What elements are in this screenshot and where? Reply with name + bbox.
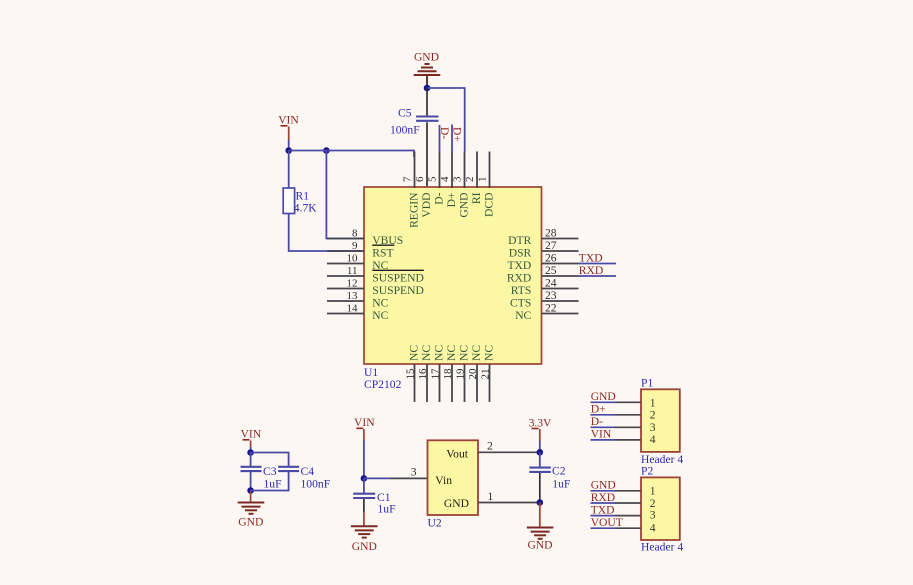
label C3 [263, 465, 277, 478]
pin number 1 [488, 490, 494, 503]
wire VIN down to node [363, 440, 365, 478]
op IC U1 CP2102 body [364, 187, 542, 364]
pin name CTS [510, 296, 531, 309]
svg-text:6: 6 [414, 176, 426, 182]
P1 pin 3 net wire D- [591, 426, 616, 428]
node junction C3/C4 top [247, 449, 254, 456]
pin name NC (bottom) [445, 345, 458, 361]
pin 27 stub (right) [542, 250, 579, 252]
pin name NC [372, 309, 388, 322]
pin number 3 [411, 465, 417, 478]
svg-text:SUSPEND: SUSPEND [372, 271, 424, 284]
svg-text:NC: NC [445, 345, 458, 361]
P2 pin number 4 [650, 521, 656, 534]
svg-text:2: 2 [650, 408, 656, 421]
power port VIN (lower left) [240, 428, 261, 448]
wire C2 to bottom node [539, 473, 541, 503]
wire net TXD from pin26 [579, 263, 617, 265]
P2 pin number 3 [650, 509, 656, 522]
pin number 26 [545, 251, 557, 264]
svg-text:Vout: Vout [446, 447, 468, 460]
pin name NC (bottom) [470, 345, 483, 361]
pin 3 stub of U2 [390, 477, 428, 479]
pin number 23 [545, 289, 557, 302]
value 1uF [552, 477, 571, 490]
label C1 [377, 491, 391, 504]
P1 pin 4 stub [615, 439, 641, 441]
pin number 3 [452, 176, 464, 182]
connector P2 body [641, 477, 680, 540]
net label RXD [579, 264, 603, 277]
svg-text:VIN: VIN [278, 114, 299, 127]
wire C3 to bottom node [250, 472, 252, 491]
pin name RXD [507, 271, 531, 284]
value 1uF [264, 477, 283, 490]
svg-text:GND: GND [458, 193, 471, 218]
ground symbol (top, flipped earth) [414, 64, 441, 75]
pin number 8 [352, 227, 358, 239]
label C5 [398, 107, 412, 120]
pin name NC (bottom) [433, 345, 446, 361]
power port GND (top, net label) [414, 51, 439, 64]
svg-text:13: 13 [347, 290, 359, 302]
resistor R1 [283, 188, 294, 214]
pin name NC (bottom) [483, 345, 496, 361]
pin 17 stub (bottom) [439, 364, 441, 402]
value 100nF [301, 477, 331, 490]
net label D- [591, 415, 603, 428]
capacitor C2 [529, 468, 550, 472]
pin name VDD [420, 193, 433, 218]
pin number 24 [545, 276, 557, 289]
pin number 4 [439, 176, 451, 182]
svg-text:NC: NC [515, 309, 531, 322]
wire junction to pin8 VBUS [326, 151, 364, 239]
svg-text:NC: NC [483, 345, 496, 361]
wire net D- to pin5 [439, 125, 441, 152]
comment Header 4 (P1) [641, 453, 683, 466]
connector P2 designator [641, 465, 653, 478]
svg-text:4: 4 [650, 433, 656, 446]
P2 pin 1 stub [615, 490, 641, 492]
svg-text:D+: D+ [445, 193, 458, 208]
pin name TXD [507, 259, 531, 272]
pin name NC (bottom) [420, 345, 433, 361]
capacitor C3 [241, 467, 262, 471]
pin 12 stub (left) [327, 288, 364, 290]
wire C4 to bottom node [251, 472, 289, 491]
node junction VIN/VBUS branch [323, 147, 330, 154]
svg-text:C3: C3 [263, 465, 277, 478]
svg-text:14: 14 [347, 302, 359, 314]
svg-text:4.7K: 4.7K [294, 202, 317, 215]
wire 3.3V to node [539, 441, 541, 453]
P1 pin 4 net wire VIN [591, 439, 616, 441]
wire GND stem to junction [426, 76, 428, 89]
svg-text:1uF: 1uF [552, 477, 571, 490]
pin name SUSPEND [372, 271, 424, 284]
svg-text:SUSPEND: SUSPEND [372, 284, 424, 297]
svg-text:D-: D- [433, 192, 446, 204]
svg-text:RTS: RTS [511, 284, 532, 297]
svg-text:17: 17 [429, 368, 441, 380]
svg-text:VIN: VIN [591, 428, 612, 441]
net label GND [591, 390, 616, 403]
svg-text:NC: NC [458, 345, 471, 361]
pin name RI [470, 192, 483, 204]
svg-text:D+: D+ [591, 403, 606, 416]
P2 pin 1 net wire GND [591, 490, 616, 492]
node junction VIN/R1 [285, 147, 292, 154]
pin number 20 [467, 368, 479, 380]
pin 21 stub (bottom) [489, 364, 491, 402]
svg-text:Vin: Vin [435, 474, 452, 487]
pin number 1 [477, 177, 489, 183]
pin 2 stub of U2 (Vout) [478, 451, 540, 453]
svg-text:7: 7 [402, 176, 414, 182]
svg-text:GND: GND [591, 390, 616, 403]
pin name GND [458, 193, 471, 218]
pin 24 stub (right) [542, 288, 579, 290]
svg-text:NC: NC [372, 309, 388, 322]
P2 pin number 1 [650, 485, 656, 498]
pin number 27 [545, 239, 557, 252]
pin number 2 [487, 440, 493, 453]
svg-text:TXD: TXD [591, 503, 615, 516]
wire net D+ to pin4 [451, 125, 453, 153]
svg-text:1: 1 [488, 490, 494, 503]
pin 4 stub (top) [451, 152, 453, 189]
svg-text:DTR: DTR [508, 234, 531, 247]
pin 11 stub (left) [327, 275, 364, 277]
svg-text:28: 28 [545, 226, 557, 239]
P2 pin 2 stub [615, 502, 641, 504]
P1 pin 1 stub [615, 401, 641, 403]
svg-text:3: 3 [452, 176, 464, 182]
part number CP2102 [364, 378, 402, 391]
wire node to C1 [363, 478, 365, 494]
svg-text:5: 5 [427, 176, 439, 182]
pin name NC [372, 296, 388, 309]
pin number 19 [454, 368, 466, 380]
svg-text:CP2102: CP2102 [364, 378, 402, 391]
svg-text:NC: NC [408, 345, 421, 361]
pin number 18 [442, 368, 454, 380]
pin 9 stub (left) [327, 250, 364, 252]
P2 pin 3 net wire TXD [591, 515, 616, 517]
wire net RXD from pin25 [579, 275, 617, 277]
pin name SUSPEND [372, 284, 424, 297]
svg-text:2: 2 [487, 440, 493, 453]
svg-text:19: 19 [454, 368, 466, 380]
wire VIN stem to junction [288, 140, 290, 151]
P2 pin 4 net wire VOUT [591, 527, 616, 529]
svg-text:21: 21 [479, 369, 491, 380]
pin name DTR [508, 234, 531, 247]
svg-text:8: 8 [352, 227, 358, 239]
pin 10 stub (left) [327, 263, 364, 265]
svg-text:18: 18 [442, 368, 454, 380]
pin number 14 [347, 302, 359, 314]
pin name RST [372, 246, 393, 259]
node junction 3.3V/Vout/C2 [537, 449, 544, 456]
svg-text:1: 1 [650, 485, 656, 498]
svg-text:16: 16 [417, 368, 429, 380]
wire node to C3 [250, 453, 252, 468]
svg-text:VIN: VIN [240, 428, 261, 441]
pin 8 stub (left) [327, 238, 364, 240]
net label D+ (rotated) [451, 127, 464, 142]
net label TXD [591, 503, 615, 516]
svg-text:1: 1 [477, 177, 489, 183]
svg-text:GND: GND [238, 516, 263, 529]
label C4 [301, 465, 315, 478]
svg-text:GND: GND [527, 539, 552, 552]
svg-text:GND: GND [444, 497, 469, 510]
pin number 6 [414, 176, 426, 182]
pin number 16 [417, 368, 429, 380]
svg-text:20: 20 [467, 368, 479, 380]
P1 pin number 2 [650, 408, 656, 421]
pin 3 stub (top) [464, 152, 466, 189]
wire node to ground [539, 503, 541, 528]
pin 16 stub (bottom) [426, 364, 428, 402]
wire VIN to C3 node [250, 447, 252, 453]
svg-text:100nF: 100nF [390, 124, 420, 137]
pin number 7 [402, 176, 414, 182]
P2 pin number 2 [650, 497, 656, 510]
net label VIN [591, 428, 612, 441]
node junction VIN/C1/U2 [361, 475, 368, 482]
svg-text:3: 3 [650, 509, 656, 522]
value 100nF [390, 124, 420, 137]
P1 pin number 3 [650, 421, 656, 434]
svg-text:REGIN: REGIN [408, 192, 421, 228]
svg-text:RI: RI [470, 192, 483, 204]
net label D+ [591, 403, 606, 416]
regulator U2 body [428, 440, 479, 515]
pin name VBUS [372, 234, 403, 247]
pin 20 stub (bottom) [476, 364, 478, 402]
wire branch to C4 [251, 453, 289, 468]
pin name Vin [435, 474, 452, 487]
pin 28 stub (right) [542, 238, 579, 240]
power port GND (right) [527, 539, 552, 552]
pin number 28 [545, 226, 557, 239]
power port VIN (middle) [354, 416, 375, 440]
net label VOUT [591, 516, 623, 529]
ground symbol (middle) [351, 526, 378, 537]
pin number 15 [404, 368, 416, 380]
pin 18 stub (bottom) [451, 364, 453, 402]
net label TXD [579, 251, 603, 264]
node junction at GND/VDD/C5 [424, 85, 431, 92]
value 1uF [378, 503, 397, 516]
pin number 13 [347, 290, 359, 302]
wire VIN junction down to R1 [288, 151, 290, 189]
svg-text:4: 4 [439, 176, 451, 182]
pin name RTS [511, 284, 532, 297]
svg-text:1uF: 1uF [378, 503, 397, 516]
wire R1 to pin9 RST [289, 214, 364, 252]
svg-text:NC: NC [470, 345, 483, 361]
capacitor C1 [353, 494, 375, 498]
svg-text:DCD: DCD [483, 193, 496, 217]
pin 7 stub (top) [414, 152, 416, 189]
ground symbol (lower left) [238, 503, 265, 514]
svg-text:D-: D- [438, 127, 451, 139]
power port VIN (upper left) [278, 114, 299, 141]
pin number 10 [347, 252, 359, 264]
pin 1 stub (top) [489, 152, 491, 189]
pin name NC (bottom) [408, 345, 421, 361]
wire node to C2 [539, 452, 541, 468]
pin name Vout [446, 447, 468, 460]
svg-text:DSR: DSR [509, 246, 532, 259]
wire C1 to ground [363, 499, 365, 526]
net label RXD [591, 491, 615, 504]
P1 pin 3 stub [615, 426, 641, 428]
svg-text:NC: NC [372, 296, 388, 309]
svg-text:RXD: RXD [507, 271, 531, 284]
connector P1 body [641, 389, 680, 452]
svg-text:2: 2 [464, 177, 476, 183]
svg-text:VIN: VIN [354, 416, 375, 429]
pin number 12 [347, 277, 358, 289]
pin name DSR [509, 246, 532, 259]
node junction GND/C2 [537, 499, 544, 506]
svg-text:P1: P1 [641, 376, 653, 389]
pin number 25 [545, 264, 557, 277]
pin name NC [372, 259, 388, 272]
label C2 [552, 464, 566, 477]
svg-text:9: 9 [352, 240, 358, 252]
label R1 [296, 190, 310, 203]
svg-text:1uF: 1uF [264, 477, 283, 490]
value 4.7K [294, 202, 317, 215]
P2 pin 4 stub [615, 527, 641, 529]
pin number 9 [352, 240, 358, 252]
pin 25 stub (right) [542, 275, 579, 277]
ground symbol (right) [527, 528, 554, 539]
pin number 22 [545, 301, 557, 314]
wire node to U2 Vin [364, 477, 390, 479]
comment Header 4 (P2) [641, 540, 683, 553]
svg-text:3.3V: 3.3V [529, 416, 552, 429]
P1 pin 1 net wire GND [591, 401, 616, 403]
svg-text:VDD: VDD [420, 193, 433, 218]
svg-text:12: 12 [347, 277, 358, 289]
svg-text:TXD: TXD [507, 259, 531, 272]
svg-text:10: 10 [347, 252, 359, 264]
svg-text:25: 25 [545, 264, 557, 277]
pin number 21 [479, 369, 491, 380]
pin number 5 [427, 176, 439, 182]
P1 pin number 1 [650, 397, 656, 410]
svg-text:Header 4: Header 4 [641, 540, 683, 553]
svg-text:P2: P2 [641, 465, 653, 478]
svg-text:100nF: 100nF [301, 477, 331, 490]
pin 15 stub (bottom) [414, 364, 416, 402]
pin name GND [444, 497, 469, 510]
pin 2 stub (top) [476, 152, 478, 189]
svg-text:GND: GND [352, 540, 377, 553]
svg-text:C5: C5 [398, 107, 412, 120]
pin number 2 [464, 177, 476, 183]
svg-text:11: 11 [347, 265, 358, 277]
svg-text:D+: D+ [451, 127, 464, 142]
svg-text:CTS: CTS [510, 296, 531, 309]
svg-text:NC: NC [420, 345, 433, 361]
net label GND [591, 479, 616, 492]
pin 1 stub of U2 (GND) [478, 502, 540, 504]
pin 13 stub (left) [327, 300, 364, 302]
designator U1 [364, 366, 378, 379]
capacitor C5 [416, 88, 438, 188]
pin number 11 [347, 265, 358, 277]
wire node to ground [250, 491, 252, 503]
svg-text:RXD: RXD [579, 264, 603, 277]
P1 pin 2 stub [615, 414, 641, 416]
svg-text:RST: RST [372, 246, 393, 259]
connector P1 designator [641, 376, 653, 389]
svg-text:GND: GND [414, 51, 439, 64]
pin name NC (bottom) [458, 345, 471, 361]
svg-text:24: 24 [545, 276, 557, 289]
P2 pin 3 stub [615, 515, 641, 517]
pin name D+ [445, 193, 458, 208]
svg-text:D-: D- [591, 415, 603, 428]
P1 pin number 4 [650, 433, 656, 446]
svg-text:C4: C4 [301, 465, 315, 478]
svg-text:23: 23 [545, 289, 557, 302]
capacitor C4 [278, 467, 299, 471]
svg-text:26: 26 [545, 251, 557, 264]
pin 5 stub (top) [439, 152, 441, 189]
svg-text:27: 27 [545, 239, 557, 252]
svg-text:NC: NC [433, 345, 446, 361]
power port GND (lower left) [238, 516, 263, 529]
svg-text:15: 15 [404, 368, 416, 380]
pin 19 stub (bottom) [464, 364, 466, 402]
svg-text:GND: GND [591, 479, 616, 492]
pin 26 stub (right) [542, 263, 579, 265]
node junction C3/C4 bottom [247, 487, 254, 494]
wire junction to pin3 GND [427, 88, 465, 152]
designator U2 [428, 517, 442, 530]
svg-text:3: 3 [411, 465, 417, 478]
pin name REGIN [408, 192, 421, 228]
svg-text:U2: U2 [428, 517, 442, 530]
svg-text:RXD: RXD [591, 491, 615, 504]
pin 22 stub (right) [542, 313, 579, 315]
pin 23 stub (right) [542, 300, 579, 302]
P1 pin 2 net wire D+ [591, 414, 616, 416]
pin name D- [433, 192, 446, 204]
overline SUSPEND [372, 269, 424, 271]
svg-text:C2: C2 [552, 464, 566, 477]
overline RST [372, 244, 394, 246]
wire VIN to pin7 REGIN [289, 151, 414, 158]
power port GND (middle) [352, 540, 377, 553]
svg-text:TXD: TXD [579, 251, 603, 264]
svg-text:4: 4 [650, 521, 656, 534]
pin number 17 [429, 368, 441, 380]
power port 3.3V [529, 416, 552, 440]
P2 pin 2 net wire RXD [591, 502, 616, 504]
net label D- (rotated) [438, 127, 451, 139]
svg-text:22: 22 [545, 301, 557, 314]
